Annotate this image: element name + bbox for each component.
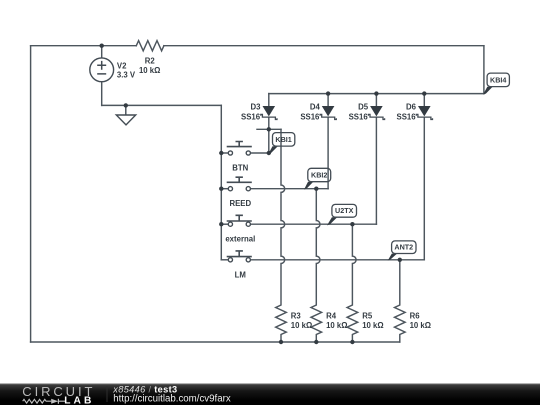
wire external right to D5 — [250, 223, 376, 225]
svg-text:KBI4: KBI4 — [490, 76, 506, 85]
diode D6 — [397, 103, 433, 122]
footer bar — [0, 384, 540, 405]
junction D5 anode / diode rail — [374, 91, 378, 95]
resistor R2 labels — [139, 56, 160, 75]
wire D3 column lower — [268, 117, 270, 153]
pushbutton switch REED (open) — [227, 177, 252, 208]
wire REED right to D4 — [250, 188, 328, 190]
svg-text:REED: REED — [229, 199, 251, 208]
junction D4 anode / diode rail — [326, 91, 330, 95]
wire BTN right to node — [250, 152, 268, 154]
flag U2TX — [327, 204, 357, 225]
junction external row / R5 top — [350, 222, 354, 226]
svg-text:SS16: SS16 — [349, 112, 369, 121]
svg-text:KBI1: KBI1 — [275, 135, 291, 144]
svg-text:3.3 V: 3.3 V — [117, 71, 136, 80]
flag KBI2 — [304, 168, 331, 189]
wire external left stub — [221, 223, 228, 225]
junction R4 bottom / ground rail — [314, 340, 318, 344]
svg-text:ANT2: ANT2 — [394, 243, 413, 252]
svg-text:SS16: SS16 — [241, 112, 261, 121]
svg-text:LM: LM — [235, 270, 246, 279]
resistor R6 labels — [410, 312, 431, 331]
wire D6 column upper — [423, 94, 425, 106]
svg-text:10 kΩ: 10 kΩ — [410, 321, 431, 330]
svg-text:LAB: LAB — [64, 396, 94, 405]
logo resistor squiggle — [23, 399, 52, 403]
wire V2 top stub — [101, 46, 103, 58]
resistor R4 column with hops — [311, 189, 322, 342]
wire D5 column upper — [375, 94, 377, 106]
resistor R4 labels — [326, 312, 347, 331]
wire left bus — [30, 46, 32, 342]
resistor R6 column — [395, 260, 406, 342]
wire ground row — [102, 104, 222, 106]
svg-text:R3: R3 — [291, 312, 302, 321]
wire V2 bottom stub — [101, 82, 103, 106]
junction REED row / R4 top — [314, 187, 318, 191]
svg-text:D6: D6 — [406, 103, 417, 112]
flag KBI4 — [483, 73, 509, 94]
wire switch bus — [220, 105, 222, 259]
junction LM row / R6 top — [398, 258, 402, 262]
resistor R2 zigzag — [136, 41, 164, 51]
svg-text:SS16: SS16 — [397, 112, 417, 121]
junction V2 top / supply rail — [100, 44, 104, 48]
svg-text:10 kΩ: 10 kΩ — [326, 321, 347, 330]
junction bus / REED row — [219, 187, 223, 191]
junction D3 cathode / R3 jog — [267, 127, 271, 131]
wire bottom rail — [31, 341, 400, 343]
wire BTN left stub — [221, 152, 228, 154]
svg-text:10 kΩ: 10 kΩ — [139, 66, 160, 75]
diode D5 — [349, 103, 385, 122]
svg-text:D4: D4 — [310, 103, 321, 112]
wire jog D3 to R3 — [257, 128, 281, 130]
wire top rail left — [31, 45, 137, 47]
wire diode row — [269, 93, 484, 95]
svg-text:external: external — [225, 234, 255, 243]
junction bus / BTN row — [219, 151, 223, 155]
svg-text:V2: V2 — [117, 62, 127, 71]
wire REED left stub — [221, 188, 228, 190]
svg-text:SS16: SS16 — [300, 112, 320, 121]
ground — [116, 105, 135, 125]
svg-text:BTN: BTN — [232, 163, 248, 172]
logo diode — [51, 399, 58, 404]
resistor R3 column with hops — [276, 129, 287, 342]
pushbutton switch LM (closed) — [227, 251, 252, 279]
flag ANT2 — [388, 241, 416, 261]
resistor R3 labels — [291, 312, 312, 331]
svg-text:R6: R6 — [410, 312, 421, 321]
svg-text:R4: R4 — [326, 312, 337, 321]
wire D5 column lower — [375, 117, 377, 224]
svg-text:R2: R2 — [145, 56, 156, 65]
footer separator — [107, 386, 108, 402]
wire LM left stub — [221, 259, 228, 261]
junction D6 anode / diode rail — [422, 91, 426, 95]
svg-text:D5: D5 — [358, 103, 369, 112]
wire right drop to KBI4 — [483, 46, 485, 94]
pushbutton switch external (closed) — [225, 215, 255, 243]
svg-text:R5: R5 — [362, 312, 373, 321]
svg-text:10 kΩ: 10 kΩ — [362, 321, 383, 330]
junction bus / external row — [219, 222, 223, 226]
diode D3 — [241, 103, 277, 122]
wire LM right to D6 — [250, 259, 424, 261]
flag KBI1 — [268, 133, 295, 155]
pushbutton switch BTN (open) — [227, 142, 252, 173]
svg-text:D3: D3 — [251, 103, 262, 112]
junction BTN row / node KBI1 — [267, 151, 271, 155]
wire D3 column upper — [268, 94, 270, 106]
junction ground node — [124, 103, 128, 107]
wire top rail right — [164, 45, 484, 47]
junction R3 bottom / ground rail — [279, 340, 283, 344]
resistor R5 labels — [362, 312, 383, 331]
svg-text:KBI2: KBI2 — [311, 171, 327, 180]
diode D4 — [300, 103, 336, 122]
svg-text:http://circuitlab.com/cv9farx: http://circuitlab.com/cv9farx — [113, 394, 231, 405]
wire D4 column lower — [327, 117, 329, 189]
svg-text:U2TX: U2TX — [335, 206, 354, 215]
wire D6 column lower — [423, 117, 425, 260]
junction R5 bottom / ground rail — [350, 340, 354, 344]
svg-text:10 kΩ: 10 kΩ — [291, 321, 312, 330]
wire D4 column upper — [327, 94, 329, 106]
resistor R5 column with hop — [347, 224, 358, 342]
voltage source V2 — [90, 58, 136, 82]
